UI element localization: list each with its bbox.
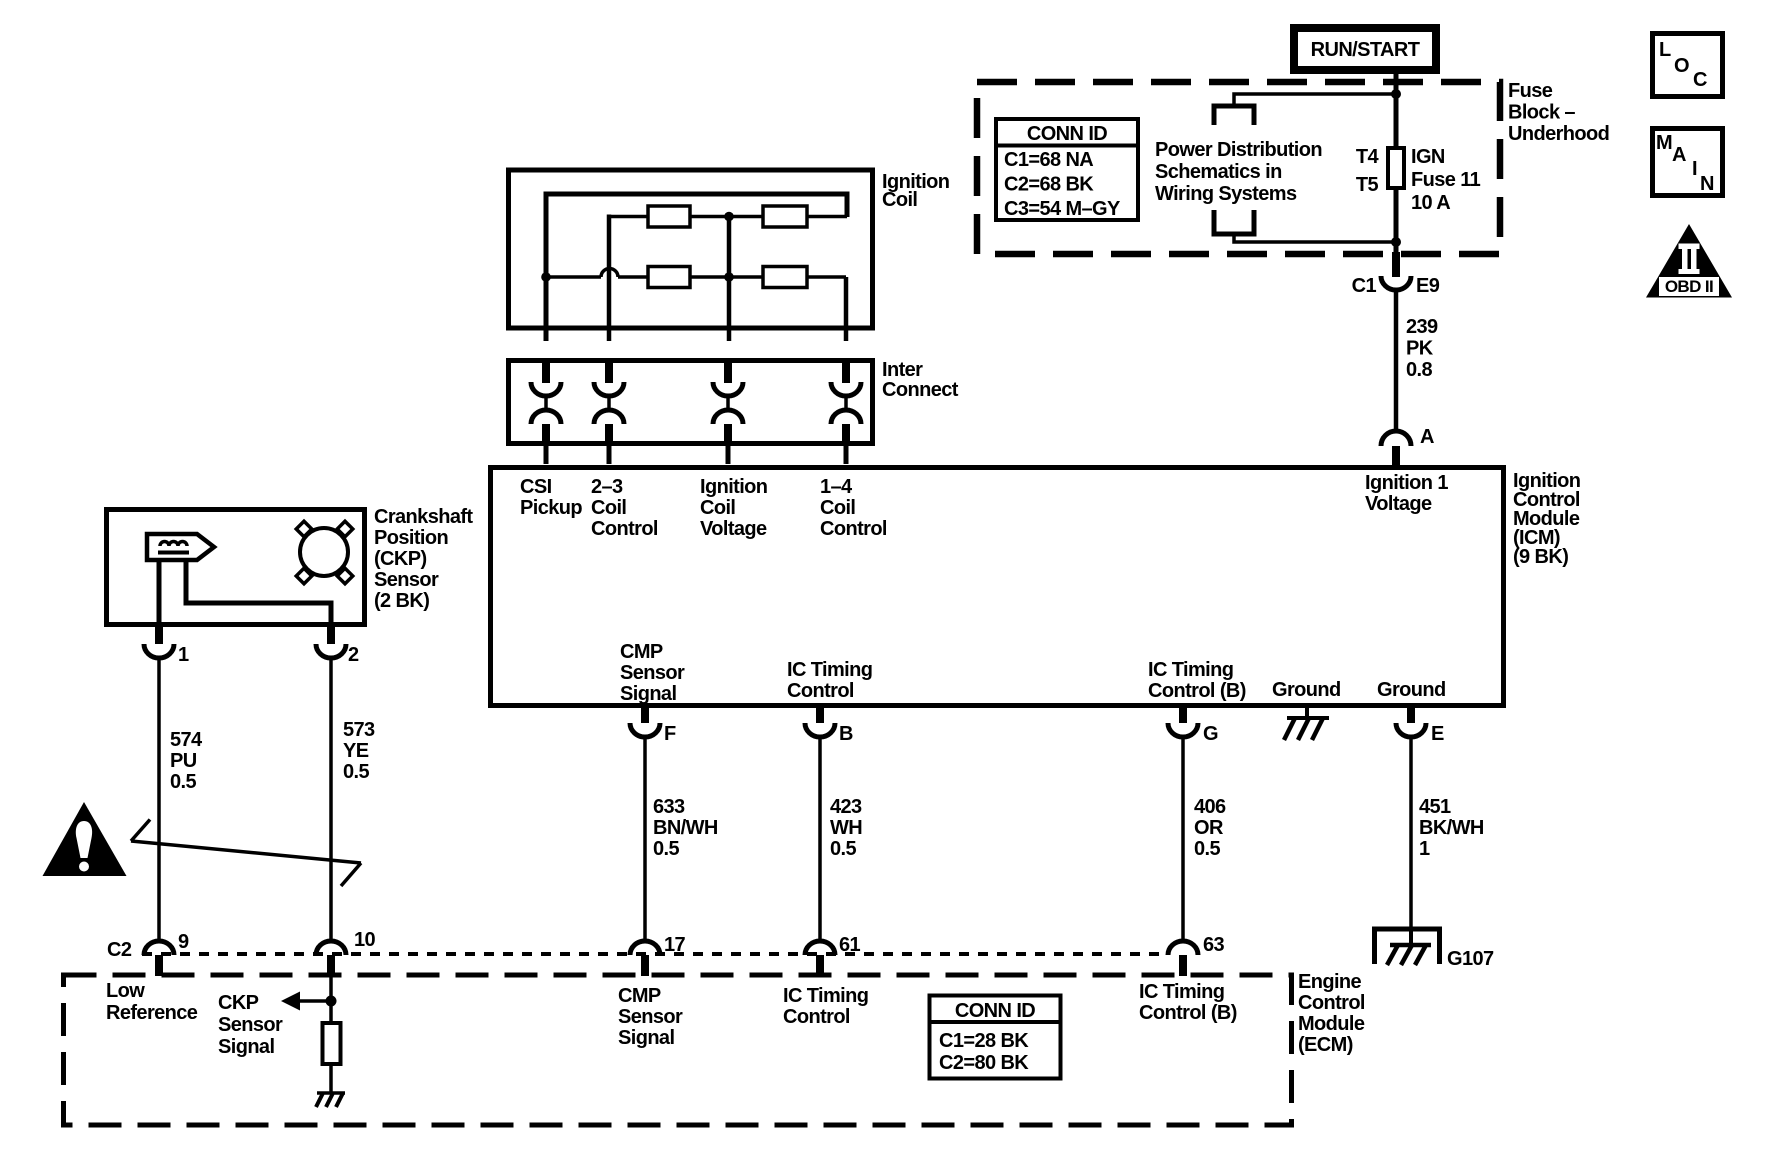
pin label 2-3 Coil Control — [591, 476, 658, 540]
svg-text:IC Timing: IC Timing — [1148, 659, 1233, 681]
label Fuse Block - Underhood — [1508, 80, 1609, 145]
svg-text:M: M — [1656, 132, 1672, 154]
junction dot coil lower — [724, 272, 734, 282]
svg-text:Signal: Signal — [620, 683, 676, 705]
svg-text:(2 BK): (2 BK) — [374, 590, 429, 612]
node RUN/START — [1294, 28, 1436, 70]
svg-text:Module: Module — [1298, 1013, 1365, 1035]
svg-text:Inter: Inter — [882, 359, 923, 381]
svg-text:C1: C1 — [1352, 275, 1377, 297]
CONN ID table (fuse block) — [994, 119, 1140, 220]
connector F — [630, 704, 660, 737]
svg-text:E9: E9 — [1416, 275, 1440, 297]
ground chassis (ECM internal) — [316, 1093, 345, 1107]
wire label 423 WH 0.5 — [830, 796, 862, 860]
svg-text:573: 573 — [343, 719, 375, 741]
connector pin 63 — [1168, 941, 1198, 976]
svg-text:CONN ID: CONN ID — [955, 1000, 1035, 1022]
svg-text:Crankshaft: Crankshaft — [374, 506, 473, 528]
svg-text:574: 574 — [170, 729, 203, 751]
pin label IC Timing Control (ECM) — [783, 985, 868, 1028]
connector pin 17 — [630, 941, 660, 976]
svg-text:423: 423 — [830, 796, 862, 818]
wire resistor to ground — [329, 1064, 333, 1093]
svg-text:Control (B): Control (B) — [1148, 680, 1246, 702]
svg-text:Coil: Coil — [882, 189, 917, 211]
pin label CSI Pickup — [520, 476, 582, 519]
svg-text:O: O — [1674, 55, 1689, 77]
svg-text:(ECM): (ECM) — [1298, 1034, 1353, 1056]
connector pin 61 — [805, 941, 835, 976]
engine control module box (dashed) — [64, 975, 1292, 1125]
wire pin10 into ECM — [329, 975, 333, 1023]
svg-text:C1=68 NA: C1=68 NA — [1004, 149, 1093, 171]
svg-text:C2: C2 — [107, 939, 132, 961]
LOC legend box — [1653, 34, 1723, 97]
label Engine Control Module (ECM) — [1298, 971, 1365, 1056]
connector C1/E9 cup — [1381, 276, 1411, 290]
connector pin 1 — [144, 625, 174, 658]
pin label CMP Sensor Signal (ICM) — [620, 641, 685, 705]
svg-text:Block –: Block – — [1508, 102, 1575, 124]
resistor coil primary 2-3 — [648, 206, 690, 227]
svg-text:IC Timing: IC Timing — [787, 659, 872, 681]
svg-text:RUN/START: RUN/START — [1311, 39, 1420, 61]
pin label Ignition 1 Voltage — [1365, 472, 1448, 515]
wire hop to R3 — [618, 275, 648, 279]
svg-text:0.5: 0.5 — [830, 838, 856, 860]
pin label Ignition Coil Voltage — [700, 476, 767, 540]
connector interconnect CSI pickup — [531, 363, 561, 464]
fuse IGN Fuse 11 10 A — [1388, 148, 1404, 188]
pin label Low Reference — [106, 980, 198, 1024]
junction dot upper — [1391, 89, 1401, 99]
wire pickup left leg — [157, 560, 162, 627]
svg-text:(9 BK): (9 BK) — [1513, 546, 1568, 568]
ground chassis (ICM internal) — [1284, 706, 1329, 740]
wire 574 PU — [157, 658, 161, 939]
svg-text:10: 10 — [354, 929, 376, 951]
svg-text:Voltage: Voltage — [1365, 493, 1432, 515]
svg-text:A: A — [1420, 426, 1434, 448]
svg-text:Underhood: Underhood — [1508, 123, 1609, 145]
svg-text:A: A — [1672, 144, 1686, 166]
svg-text:T4: T4 — [1356, 146, 1380, 168]
svg-text:Sensor: Sensor — [620, 662, 685, 684]
svg-text:N: N — [1700, 173, 1714, 195]
svg-text:239: 239 — [1406, 316, 1438, 338]
junction dot coil left — [541, 272, 551, 282]
connector pin 2 — [316, 625, 346, 658]
connector interconnect coil voltage — [713, 363, 743, 464]
wire 573 YE — [329, 658, 333, 939]
wire 451 BK/WH — [1409, 737, 1413, 930]
connector C2 dotted line — [142, 952, 1168, 956]
ground G107 chassis symbol — [1387, 929, 1431, 965]
svg-text:WH: WH — [830, 817, 862, 839]
svg-text:Coil: Coil — [700, 497, 735, 519]
svg-text:(CKP): (CKP) — [374, 548, 427, 570]
svg-text:1: 1 — [1419, 838, 1430, 860]
wire 423 WH — [818, 737, 822, 939]
svg-text:CMP: CMP — [618, 985, 661, 1007]
svg-text:1: 1 — [178, 644, 189, 666]
svg-text:Position: Position — [374, 527, 448, 549]
wire 406 OR — [1181, 737, 1185, 939]
wire label 573 YE 0.5 — [343, 719, 375, 783]
junction dot coil top — [724, 212, 734, 222]
wire lower bracket to fuse node — [1234, 234, 1396, 242]
svg-text:0.8: 0.8 — [1406, 359, 1432, 381]
crankshaft position sensor box — [107, 510, 365, 625]
wire 239 PK — [1394, 290, 1399, 431]
svg-text:C2=80 BK: C2=80 BK — [939, 1052, 1029, 1074]
label IGN Fuse 11 10 A — [1411, 146, 1481, 214]
svg-text:Control: Control — [591, 518, 658, 540]
wire label 574 PU 0.5 — [170, 729, 203, 793]
wire upper bracket to fuse node — [1234, 94, 1396, 106]
svg-text:C: C — [1693, 69, 1707, 91]
svg-text:Pickup: Pickup — [520, 497, 582, 519]
resistor coil secondary 2-3 — [648, 267, 690, 288]
svg-text:Control: Control — [1298, 992, 1365, 1014]
wire coil lower row left — [546, 275, 601, 279]
svg-text:Power Distribution: Power Distribution — [1155, 139, 1322, 161]
svg-text:PK: PK — [1406, 338, 1434, 360]
svg-text:Engine: Engine — [1298, 971, 1362, 993]
pin label IC Timing Control (B) (ICM) — [1148, 659, 1246, 702]
wire hop over lead 2 — [601, 269, 618, 278]
svg-text:0.5: 0.5 — [653, 838, 679, 860]
wire R3 to junction — [690, 275, 763, 279]
pickup coil symbol — [147, 534, 214, 560]
svg-text:2–3: 2–3 — [591, 476, 623, 498]
svg-text:0.5: 0.5 — [1194, 838, 1220, 860]
arrow CKP sensor signal — [281, 992, 331, 1011]
svg-text:10 A: 10 A — [1411, 192, 1450, 214]
svg-text:Voltage: Voltage — [700, 518, 767, 540]
svg-text:Reference: Reference — [106, 1002, 198, 1024]
svg-text:Signal: Signal — [218, 1036, 274, 1058]
svg-text:0.5: 0.5 — [343, 761, 369, 783]
svg-text:Control (B): Control (B) — [1139, 1002, 1237, 1024]
svg-text:Sensor: Sensor — [618, 1006, 683, 1028]
svg-text:B: B — [839, 723, 853, 745]
wire R1 to junction — [690, 215, 763, 219]
svg-text:CKP: CKP — [218, 992, 259, 1014]
wire 633 BN/WH — [643, 737, 647, 939]
junction dot CKP signal — [326, 996, 337, 1007]
wire label 406 OR 0.5 — [1194, 796, 1226, 860]
svg-text:Ground: Ground — [1272, 679, 1341, 701]
svg-text:Control: Control — [787, 680, 854, 702]
ground G107 bracket — [1375, 929, 1440, 964]
svg-text:Coil: Coil — [591, 497, 626, 519]
inter connect box — [509, 361, 873, 444]
svg-text:63: 63 — [1203, 934, 1225, 956]
pin label CMP Sensor Signal (ECM) — [618, 985, 683, 1049]
coil lead 2 vertical — [609, 215, 648, 219]
label CKP Sensor Signal (ECM) — [218, 992, 283, 1058]
svg-text:Control: Control — [783, 1006, 850, 1028]
svg-text:PU: PU — [170, 750, 197, 772]
svg-text:2: 2 — [348, 644, 359, 666]
svg-text:61: 61 — [839, 934, 861, 956]
svg-text:F: F — [664, 723, 676, 745]
svg-text:Fuse: Fuse — [1508, 80, 1553, 102]
label Ignition Control Module (ICM) (9 BK) — [1513, 470, 1580, 568]
svg-text:IC Timing: IC Timing — [1139, 981, 1224, 1003]
fuse block underhood (dashed box) — [977, 82, 1500, 254]
svg-text:BK/WH: BK/WH — [1419, 817, 1484, 839]
svg-text:E: E — [1431, 723, 1444, 745]
svg-text:CMP: CMP — [620, 641, 663, 663]
svg-text:451: 451 — [1419, 796, 1451, 818]
svg-text:633: 633 — [653, 796, 685, 818]
svg-text:I: I — [1692, 158, 1697, 180]
svg-text:CONN ID: CONN ID — [1027, 123, 1107, 145]
svg-text:Low: Low — [106, 980, 145, 1002]
connector C1/E9 pin stub — [1392, 252, 1400, 277]
coil center vertical — [727, 217, 732, 342]
ignition coil box — [509, 170, 873, 328]
svg-text:BN/WH: BN/WH — [653, 817, 718, 839]
CONN ID table (ECM) — [929, 996, 1061, 1079]
connector interconnect 2-3 coil — [594, 363, 624, 464]
svg-text:IGN: IGN — [1411, 146, 1445, 168]
resistor coil primary 1-4 — [763, 206, 807, 227]
svg-text:Signal: Signal — [618, 1027, 674, 1049]
svg-text:G: G — [1203, 723, 1218, 745]
resistor ECM pullup — [323, 1023, 341, 1064]
wire label 633 BN/WH 0.5 — [653, 796, 718, 860]
resistor coil secondary 1-4 — [763, 267, 807, 288]
svg-text:Coil: Coil — [820, 497, 855, 519]
svg-text:OBD II: OBD II — [1665, 277, 1713, 296]
svg-text:C2=68 BK: C2=68 BK — [1004, 174, 1094, 196]
svg-text:Ignition 1: Ignition 1 — [1365, 472, 1448, 494]
svg-text:Ignition: Ignition — [700, 476, 767, 498]
svg-text:Sensor: Sensor — [374, 569, 439, 591]
svg-text:IC Timing: IC Timing — [783, 985, 868, 1007]
label Inter Connect — [882, 359, 959, 401]
connector A cap — [1381, 431, 1411, 446]
wire R4 to lead 4 — [807, 275, 846, 279]
svg-text:C1=28 BK: C1=28 BK — [939, 1030, 1029, 1052]
label Power Distribution Schematics in Wiring Systems — [1155, 139, 1322, 205]
reluctor wheel symbol — [296, 521, 353, 584]
wire RUN/START to fuse — [1394, 74, 1399, 150]
connector B — [805, 704, 835, 737]
svg-text:0.5: 0.5 — [170, 771, 196, 793]
svg-text:9: 9 — [178, 931, 189, 953]
wire break slash — [131, 820, 361, 887]
MAIN legend box — [1653, 129, 1723, 196]
connector pin 9 — [144, 941, 174, 976]
coil internal top bus — [546, 194, 847, 341]
svg-text:Sensor: Sensor — [218, 1014, 283, 1036]
svg-text:G107: G107 — [1447, 948, 1494, 970]
svg-text:YE: YE — [343, 740, 369, 762]
pin label IC Timing Control (B) (ECM) — [1139, 981, 1237, 1024]
connector A pin stub — [1392, 446, 1400, 466]
svg-text:Schematics in: Schematics in — [1155, 161, 1282, 183]
svg-text:Connect: Connect — [882, 379, 959, 401]
off-page bracket lower — [1214, 210, 1254, 234]
wire pickup right leg — [186, 560, 331, 627]
coil lead 4 vertical — [844, 277, 849, 341]
connector E — [1396, 704, 1426, 737]
label Ignition Coil — [882, 171, 949, 211]
ignition control module box — [491, 468, 1504, 706]
svg-text:CSI: CSI — [520, 476, 552, 498]
svg-text:Control: Control — [820, 518, 887, 540]
connector G — [1168, 704, 1198, 737]
wire fuse to connector C1/E9 — [1394, 188, 1399, 254]
svg-text:406: 406 — [1194, 796, 1226, 818]
svg-text:C3=54 M–GY: C3=54 M–GY — [1004, 198, 1121, 220]
warning triangle — [43, 802, 127, 876]
pin label 1-4 Coil Control — [820, 476, 887, 540]
svg-text:Ground: Ground — [1377, 679, 1446, 701]
svg-text:Wiring Systems: Wiring Systems — [1155, 183, 1297, 205]
OBD II legend triangle — [1646, 224, 1732, 298]
svg-text:1–4: 1–4 — [820, 476, 853, 498]
junction dot lower — [1391, 237, 1401, 247]
wire label 239 PK 0.8 — [1406, 316, 1438, 381]
svg-text:17: 17 — [664, 934, 686, 956]
wire label 451 BK/WH 1 — [1419, 796, 1484, 860]
connector interconnect 1-4 coil — [831, 363, 861, 464]
wire coil R2 to corner — [805, 215, 847, 219]
svg-text:T5: T5 — [1356, 174, 1379, 196]
off-page bracket upper — [1214, 106, 1254, 125]
pin label IC Timing Control (ICM) — [787, 659, 872, 702]
label Crankshaft Position (CKP) Sensor (2 BK) — [374, 506, 473, 612]
svg-text:OR: OR — [1194, 817, 1224, 839]
connector pin 10 — [316, 941, 346, 976]
svg-text:L: L — [1659, 39, 1671, 61]
svg-text:Fuse 11: Fuse 11 — [1411, 169, 1481, 191]
